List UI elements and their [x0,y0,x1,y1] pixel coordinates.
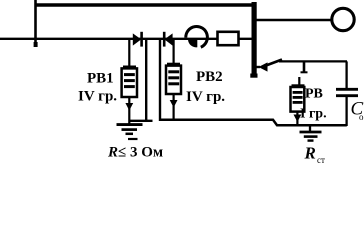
svg-text:РВ2: РВ2 [196,69,223,85]
wire cable sheath drop left [145,39,147,121]
wire cable sheath drop right [159,39,161,121]
generator G circle [332,8,354,30]
wire top bus horizontal [36,3,253,6]
capacitor Co [336,61,358,126]
svg-text:I гр.: I гр. [300,107,327,122]
svg-text:R: R [304,144,316,163]
disconnector switch [256,60,347,72]
svg-text:IV гр.: IV гр. [78,89,117,105]
reactor L [186,26,208,47]
arrester RV1 [122,39,137,125]
wire sheath jumper to RV1 ground [129,120,153,122]
ground RV1 (R<=3 Ohm) [117,125,143,139]
cable end termination right [164,32,172,47]
wire arrester RV I gr top stem [298,77,300,86]
resistor R series [218,32,239,45]
svg-text:ст: ст [317,155,325,165]
ground station Rst [300,125,322,140]
svg-text:РВ: РВ [305,87,323,102]
wire left riser from line to bus [34,0,37,43]
wire bottom ground bus [160,120,347,125]
node station bus bar [252,2,257,78]
wire main incoming line [0,38,252,40]
cable end termination left [133,32,142,47]
svg-text:РВ1: РВ1 [87,71,114,87]
arrester RV I gr [291,86,305,126]
wire generator lead [256,19,332,22]
wire stub to arrester RV I gr [303,61,306,72]
svg-text:R≤ 3 Ом: R≤ 3 Ом [107,145,163,161]
svg-text:о: о [359,112,364,122]
node left riser terminal [34,42,38,47]
arrester RV2 [166,39,181,121]
svg-text:IV гр.: IV гр. [186,89,225,105]
node bus bar foot [250,74,257,78]
